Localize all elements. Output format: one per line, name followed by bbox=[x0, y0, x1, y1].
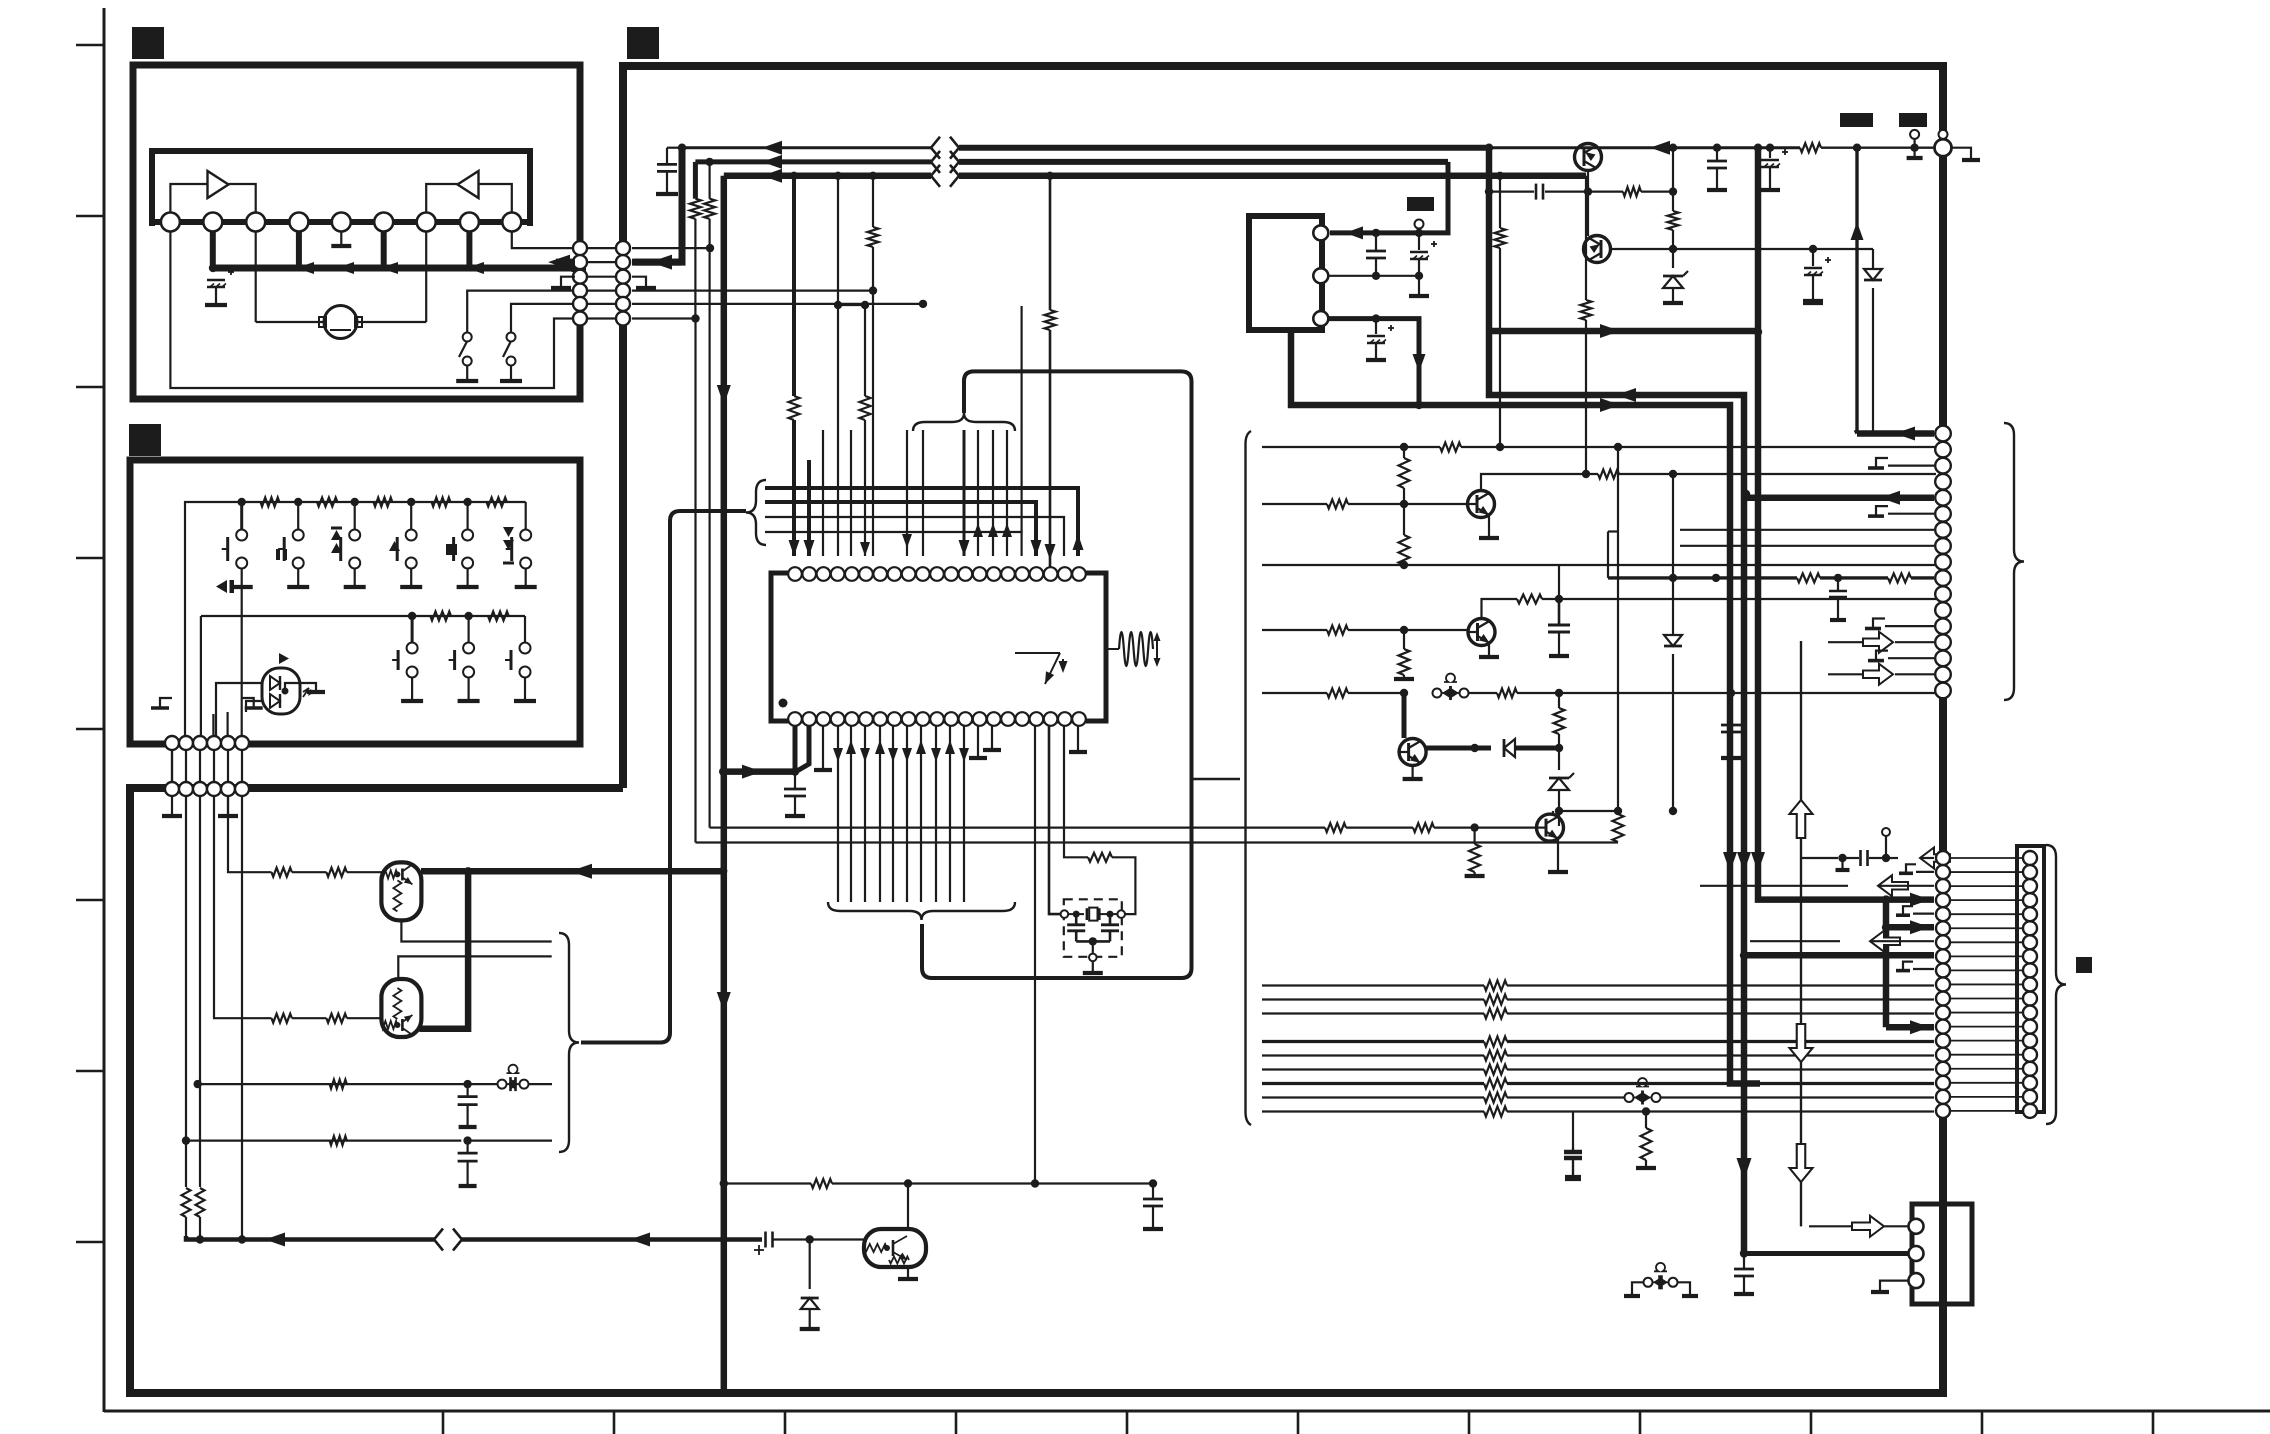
capacitor 1717 bbox=[1707, 148, 1727, 190]
QP1 base row c bbox=[1641, 187, 1677, 195]
break bus1 bbox=[931, 137, 959, 159]
ground bpin21 bbox=[1069, 726, 1087, 752]
junction DT1 bus bbox=[464, 867, 472, 875]
Q3 emitter bbox=[1403, 766, 1423, 780]
wire 823 drop bbox=[822, 430, 824, 556]
step gnd CN3 row13 bbox=[1865, 619, 1934, 629]
brace CN3 bbox=[2004, 423, 2024, 700]
capacitor 1573 bbox=[1564, 1112, 1582, 1178]
arrow bus2 west bbox=[762, 155, 782, 169]
branch 724 east arrow bbox=[723, 765, 795, 779]
wire group1 to pin bbox=[1069, 488, 1084, 556]
Q2 emitter bbox=[1479, 643, 1499, 657]
arrow CN3 row1 bbox=[1851, 222, 1916, 441]
arrow CN1 row2 west2 bbox=[650, 255, 672, 270]
row 693 bbox=[1262, 689, 1408, 698]
row 447 bbox=[1262, 443, 1936, 452]
wire row 1184 bbox=[724, 1182, 811, 1184]
wire DT2 base bbox=[347, 1017, 382, 1019]
row 578 comp bbox=[1608, 532, 1934, 621]
junction 908 bbox=[904, 1179, 912, 1187]
wire CN3 row5 thick bbox=[1742, 490, 1934, 498]
vert 1730 corner bbox=[1730, 893, 1760, 1084]
thick row 955 bbox=[1740, 951, 1934, 959]
wire 1050 thick bbox=[1045, 176, 1056, 568]
testpoint TP3 rect bbox=[1407, 197, 1434, 211]
transistor Q2 bbox=[1468, 619, 1495, 646]
wire 842 row bbox=[726, 841, 1612, 843]
junction 724 871 bbox=[719, 867, 727, 875]
capacitor motor lead bbox=[215, 287, 217, 303]
crystal load caps bbox=[1067, 914, 1119, 961]
ground lower wire4 bbox=[218, 796, 238, 816]
wire CN6 pin2 bbox=[1740, 1249, 1908, 1257]
capacitor row B bbox=[458, 1141, 478, 1186]
transistor DT1 digital bbox=[381, 862, 421, 920]
block arrow row 941 bbox=[1750, 931, 1934, 952]
brace lower-left group bbox=[559, 933, 579, 1152]
resistor Q1 coll bbox=[1598, 470, 1936, 479]
resistors key matrix row2 bbox=[430, 612, 508, 621]
wire QP1 QP2 bbox=[1587, 192, 1589, 236]
ground conn right bbox=[1952, 148, 1981, 160]
box A IC pins bbox=[161, 213, 521, 232]
row 693 east2 bbox=[1731, 692, 1936, 694]
switch S1 leaf bbox=[459, 333, 472, 366]
arrow bottom bus 2 bbox=[630, 1233, 650, 1247]
wire 1559 up bbox=[1558, 565, 1560, 599]
switches key row2 bbox=[392, 616, 536, 701]
QP2 collector row bbox=[1610, 245, 1817, 253]
wire bus1 drop to CN1 bbox=[634, 148, 682, 262]
junction 724 1184 bbox=[720, 1179, 728, 1187]
capacitor MDA 1376 bbox=[1366, 233, 1386, 280]
wire top bundle bbox=[923, 430, 1007, 556]
wire row A end bbox=[528, 1083, 552, 1085]
wire rev amp to pin9 bbox=[479, 184, 512, 212]
vert 1886 bbox=[1883, 900, 1890, 1028]
main board outline bbox=[130, 66, 1943, 1393]
QP1 base row bbox=[1485, 187, 1534, 195]
resistor crystal fb bbox=[1088, 853, 1112, 862]
transistor Q5 bbox=[1537, 814, 1564, 841]
box MDA outline bbox=[1249, 216, 1322, 330]
arrow DT1 bus west bbox=[570, 864, 592, 879]
wire bpin18 crystal bbox=[1064, 726, 1088, 857]
capacitor CN6 bbox=[1734, 1254, 1754, 1295]
connector CN2 key side bbox=[165, 736, 249, 750]
wire bottom 186 tail bbox=[185, 1217, 187, 1236]
wire 710 long bbox=[708, 248, 710, 828]
ground lower wire1 bbox=[162, 796, 182, 816]
resistor row 1184 bbox=[811, 1179, 832, 1188]
QP1 base stub bbox=[1587, 171, 1589, 192]
resistor DT2 base 2 bbox=[326, 1014, 346, 1023]
capacitor MDA3 pol bbox=[1366, 319, 1394, 360]
arrow bottom bus bbox=[265, 1233, 285, 1247]
bottom bus east bbox=[462, 1237, 762, 1242]
box A supply bus bbox=[213, 265, 580, 272]
bus group wire 2 bbox=[765, 500, 1027, 504]
junction MDA1 1376 bbox=[1372, 229, 1380, 237]
IC U1 osc arrow bbox=[1015, 653, 1068, 684]
capacitor 1153 bbox=[1143, 1179, 1163, 1229]
res 1474 v bbox=[1465, 828, 1485, 876]
step gnd CN3 r15 bbox=[1868, 651, 1934, 661]
wire 827 row bbox=[726, 826, 1325, 828]
bus line 1 east bbox=[959, 145, 1489, 151]
wire row A bbox=[194, 1080, 498, 1088]
junction box A cap bbox=[209, 264, 217, 272]
wire S1 to conn bbox=[467, 291, 580, 333]
spur 1886 928 bbox=[1882, 920, 1934, 934]
switch S1 gnd bbox=[456, 365, 478, 381]
break bottom bus bbox=[434, 1229, 462, 1251]
wire 838 drop bbox=[834, 176, 869, 309]
wire crystal fb bbox=[1112, 857, 1135, 914]
connector CN4 circles bbox=[1936, 851, 1950, 1118]
wire CN3 row1 bbox=[1853, 144, 1934, 434]
junction dots key row2 bbox=[408, 612, 473, 620]
wire lower 228 bbox=[228, 796, 272, 872]
trimmer bottom bbox=[1624, 1263, 1698, 1296]
resistor bottom 186 bbox=[182, 1188, 191, 1217]
connector CN4-CN5 links bbox=[1950, 858, 2023, 1111]
capacitor 1758 pol bbox=[1760, 144, 1788, 191]
diode 1873 bbox=[1813, 249, 1882, 433]
wire group2 to pin bbox=[1027, 502, 1042, 556]
block arrow 1801 dn2 bbox=[1790, 1144, 1813, 1182]
symbol rew-pause bbox=[216, 580, 234, 593]
IC U1 bottom pins bbox=[788, 712, 1086, 726]
wire DT3 base bbox=[773, 1235, 865, 1243]
break bus2 bbox=[931, 151, 959, 173]
symbol rew dn bbox=[503, 527, 514, 563]
ground bpin3 bbox=[814, 726, 832, 770]
row 1111 east bbox=[1642, 1107, 1934, 1115]
wire Q5 base bbox=[1475, 826, 1537, 828]
ground key wire5 bbox=[151, 698, 172, 708]
ground box A pin5 bbox=[331, 231, 351, 246]
bus2 corner resistor bbox=[690, 162, 701, 319]
wire CN6 pin1 bbox=[1809, 1216, 1908, 1237]
junction bus3 1500 bbox=[1496, 172, 1504, 180]
page border bottom line bbox=[104, 1410, 2270, 1413]
res 1404 v3 bbox=[1394, 630, 1414, 679]
junction bus1 1717 bbox=[1713, 144, 1721, 152]
bus1 resistor bbox=[1489, 143, 1936, 152]
cap row 858 bbox=[1800, 848, 1950, 871]
box A inner IC box bbox=[152, 151, 530, 226]
wire 1801 long bbox=[1800, 641, 1802, 1226]
connector CN5 circles bbox=[2023, 851, 2037, 1118]
arrow 1744 down bbox=[1737, 1158, 1752, 1180]
connector CN2 board side bbox=[165, 782, 249, 796]
wire bpin2 thick bbox=[797, 726, 809, 771]
bus line 3 bbox=[724, 173, 931, 180]
wire 851 drop bbox=[850, 430, 852, 556]
Q3 row bbox=[1426, 744, 1491, 752]
wire 1673 vert b bbox=[1669, 230, 1677, 268]
resistor 1673 bbox=[1668, 211, 1679, 230]
connector big circle top bbox=[1935, 139, 1952, 156]
arrow bus 331 bbox=[1600, 324, 1620, 338]
wire MDA pin3 b bbox=[1376, 319, 1426, 405]
wire 695 long bbox=[694, 319, 696, 843]
connector CN2 links bbox=[172, 750, 242, 782]
connector CN3 circles bbox=[1935, 426, 1951, 699]
wire key drop 186 bbox=[184, 560, 186, 744]
zener 1559 bbox=[1549, 748, 1574, 815]
box A bus arrow 4 bbox=[466, 262, 484, 274]
box MDA pins bbox=[1313, 225, 1328, 326]
resistor QP1 base bbox=[1623, 187, 1641, 196]
zone square main bbox=[627, 27, 659, 59]
arrow bus 405 bbox=[1600, 398, 1620, 412]
wire CN1 row1 bbox=[632, 244, 714, 252]
row 630 bbox=[1262, 626, 1467, 635]
junction 724 branch bbox=[719, 767, 727, 775]
row 693 east bbox=[1559, 689, 1735, 697]
resistor DT2 base 1 bbox=[272, 1014, 292, 1023]
junction bus1 1673 bbox=[1669, 144, 1677, 152]
trimmer 1097 bbox=[1625, 1078, 1935, 1104]
wire 1559 1618 bbox=[1559, 807, 1622, 815]
vert 1758 corner bbox=[1758, 893, 1934, 900]
block arrow 1801 dn bbox=[1790, 1024, 1813, 1062]
op-amp playback bbox=[208, 171, 229, 198]
arrow bus 395 bbox=[1616, 388, 1636, 402]
connector CN1 board side bbox=[616, 241, 630, 325]
capacitor 1559 bbox=[1548, 599, 1570, 656]
wire 1886 up bbox=[1882, 828, 1890, 858]
trimmer row 693 bbox=[1433, 674, 1469, 700]
arrows top bundle up bbox=[959, 523, 1013, 556]
wire 838 drop2 bbox=[837, 305, 839, 556]
row 828 bbox=[1325, 823, 1479, 832]
wire DT1 emitter bbox=[401, 921, 551, 942]
wire bpin16 long bbox=[1031, 726, 1039, 1188]
capacitor QP1 base bbox=[1536, 184, 1543, 200]
block arrow CN3 r16 bbox=[1828, 664, 1934, 685]
Q1 emitter bbox=[1479, 515, 1499, 538]
ground bpin14 bbox=[969, 726, 987, 758]
connector CN6 box bbox=[1912, 1204, 1972, 1304]
row 693 res2 bbox=[1468, 689, 1563, 698]
wire pin7 to motor bbox=[425, 231, 427, 322]
wire CN3 row8 bbox=[1680, 545, 1934, 547]
wire 1618 long bbox=[1614, 443, 1622, 811]
box A bus drop pin6 bbox=[381, 231, 387, 268]
wire box A pin1 loop bbox=[170, 231, 580, 388]
wire lower 186 bbox=[185, 796, 187, 1187]
junction bus1 bbox=[678, 144, 686, 152]
junction bus3 873 bbox=[869, 172, 877, 180]
wire CN1 row4 bbox=[632, 286, 877, 294]
op-amp reverse bbox=[458, 171, 479, 198]
junction dots key row1 bbox=[238, 498, 472, 506]
switch S2 leaf bbox=[503, 333, 516, 366]
switch S2 gnd bbox=[500, 365, 522, 381]
brace CN4 bbox=[2046, 845, 2066, 1124]
arrow CN1 row2 west bbox=[548, 255, 575, 270]
wire Q3 base bbox=[1402, 693, 1407, 738]
capacitor row A bbox=[458, 1084, 478, 1127]
crystal ground bbox=[1083, 961, 1103, 973]
wire lower 200 bbox=[199, 796, 201, 1187]
cable spur to right section bbox=[1192, 778, 1241, 780]
wire DT2 base mid bbox=[292, 1017, 327, 1019]
testpoint TP1 bbox=[1907, 130, 1923, 158]
symbol play up bbox=[389, 541, 400, 551]
bus line 1 bbox=[682, 146, 931, 149]
row 565 bbox=[1262, 561, 1936, 569]
junction row A cap bbox=[463, 1080, 471, 1088]
break bus3 bbox=[931, 165, 959, 187]
resistor bottom 200 bbox=[196, 1188, 205, 1217]
bundle rows east bbox=[1507, 986, 1934, 1112]
wire box A pin1 to amp bbox=[170, 184, 207, 212]
capacitor 1573 bbox=[1564, 1148, 1582, 1179]
resistor DT1 base 2 bbox=[326, 868, 346, 877]
IC U1 top pins bbox=[788, 567, 1086, 581]
bus2 corner to MDA bbox=[1330, 162, 1448, 233]
wire 1673 vert bbox=[1672, 148, 1674, 211]
capacitor bus1 bbox=[656, 148, 682, 194]
wire bpin17 crystal bbox=[1049, 726, 1061, 914]
transistor Q3 bbox=[1399, 739, 1426, 766]
junction bus3 838 bbox=[834, 172, 842, 180]
arrows bottom bundle bbox=[833, 740, 969, 762]
page ruler ticks bottom bbox=[443, 1411, 2153, 1434]
photo wires bbox=[216, 683, 325, 744]
wire bpin1 thick bbox=[791, 726, 799, 776]
wire group3 to pin bbox=[1055, 517, 1064, 556]
thick bus 331 bbox=[1489, 328, 1762, 336]
arrow 794 pin bbox=[789, 540, 800, 556]
box A bus arrow main bbox=[560, 260, 586, 277]
cap 1731 bbox=[1721, 693, 1741, 758]
arrow CN3 row5 bbox=[1880, 491, 1900, 505]
symbol play small bbox=[279, 653, 289, 664]
wire 907 drop bbox=[902, 430, 912, 556]
testpoint TP2 rect bbox=[1899, 113, 1927, 127]
zone square A bbox=[132, 27, 164, 59]
vert 1758 down bbox=[1755, 148, 1762, 893]
resistor bundle rows bbox=[1262, 981, 1507, 1117]
arrow 1758 east bbox=[1882, 893, 1930, 907]
cable route around IC bbox=[922, 371, 1192, 978]
arrow bus1 1650 bbox=[1650, 141, 1670, 155]
transistor Q1 bbox=[1468, 491, 1495, 518]
arrow 1050 pin bbox=[1045, 544, 1056, 560]
step gnd CN3 row3 bbox=[1868, 458, 1934, 468]
motor M1 bbox=[319, 306, 362, 339]
res 1646 bbox=[1636, 1112, 1656, 1169]
wire S2 to conn bbox=[511, 304, 580, 333]
block arrow 1801 up bbox=[1790, 800, 1813, 838]
bus line 2 east bbox=[959, 159, 1448, 165]
step gnd row 969 bbox=[1896, 962, 1934, 971]
wire DT2 collector bbox=[419, 871, 468, 1028]
QP2 transistor bbox=[1584, 236, 1611, 263]
wire MDA bottom bbox=[1291, 330, 1730, 893]
wire DT2 top bbox=[398, 956, 551, 979]
connector CN1 links bbox=[587, 248, 616, 318]
block arrow CN3 r14 bbox=[1828, 632, 1934, 653]
testpoint TP1 rect bbox=[1840, 113, 1873, 127]
wire 809 drop bbox=[804, 460, 815, 556]
crystal X1 bbox=[1061, 908, 1125, 921]
box B row1 wire bbox=[185, 502, 526, 560]
symbol pause bbox=[276, 549, 287, 560]
wire DT1 base bbox=[347, 871, 382, 873]
wire pin3 to motor bbox=[255, 231, 257, 322]
bus group wire 1 bbox=[765, 486, 1069, 490]
wire 1586 drop bbox=[1581, 176, 1592, 478]
junction bus1 1489 bbox=[1485, 144, 1493, 152]
series capacitor bus bbox=[754, 1232, 773, 1256]
block arrow 1801 dn2 bbox=[1790, 1144, 1813, 1182]
arrow 724 down2 bbox=[717, 992, 731, 1012]
corner 1886 1027 bbox=[1886, 1020, 1934, 1034]
box A bus arrow 2 bbox=[336, 262, 354, 274]
res 1404 v2 bbox=[1399, 504, 1410, 565]
brace top pin bundle bbox=[913, 413, 1015, 431]
capacitor MDA 1419 pol bbox=[1410, 233, 1437, 280]
bus group wire 3 bbox=[765, 516, 1055, 518]
bus group wire 4 bbox=[765, 531, 1012, 533]
connector CN6 circles bbox=[1909, 1219, 1924, 1288]
diode Q3 bbox=[1504, 739, 1563, 757]
wire 873 drop bbox=[868, 176, 879, 556]
step gnd row 872 bbox=[1899, 864, 1934, 873]
arrow bus1 west bbox=[762, 141, 782, 155]
wire DT1 collector bus bbox=[421, 868, 723, 875]
wire row B end bbox=[468, 1139, 552, 1141]
wire q3 down bbox=[1558, 811, 1560, 826]
junction bus1 1758 bbox=[1754, 144, 1762, 152]
wire CN3 row7 bbox=[1680, 529, 1934, 531]
junction MDA1 1419 bbox=[1415, 229, 1423, 237]
IC U1 outline bbox=[771, 573, 1106, 721]
wire 794 drop bbox=[789, 176, 800, 556]
res 1404 v bbox=[1399, 447, 1410, 504]
symbol stop bbox=[446, 544, 457, 555]
wire bottom 200 tail bbox=[196, 1217, 204, 1244]
wire box A pin7 to rev amp bbox=[426, 184, 458, 212]
junction bus3 1050 bbox=[1046, 172, 1054, 180]
wire 695 east bbox=[696, 841, 723, 843]
symbol ffwd up bbox=[331, 528, 342, 553]
wire key drop 228 bbox=[227, 712, 229, 744]
thick vert 1489 bbox=[1486, 148, 1493, 392]
box A inner box bottom edge bbox=[149, 219, 533, 225]
arrow bus3 west bbox=[762, 169, 782, 183]
wire 710 east bbox=[710, 826, 722, 828]
wire DT1 base mid bbox=[292, 871, 327, 873]
testpoint TP2 bbox=[1939, 130, 1948, 139]
zone square right bbox=[2076, 957, 2092, 973]
bracket right section bbox=[1246, 431, 1252, 1125]
ground key wire6 bbox=[242, 698, 263, 708]
wire 1500 drop bbox=[1495, 176, 1506, 451]
wire bpin15 bbox=[983, 726, 1001, 750]
resistors key matrix row1 bbox=[261, 498, 507, 507]
resistor row B bbox=[330, 1136, 347, 1145]
sine wave symbol bbox=[1106, 632, 1161, 667]
ground motor cap bbox=[205, 303, 227, 307]
